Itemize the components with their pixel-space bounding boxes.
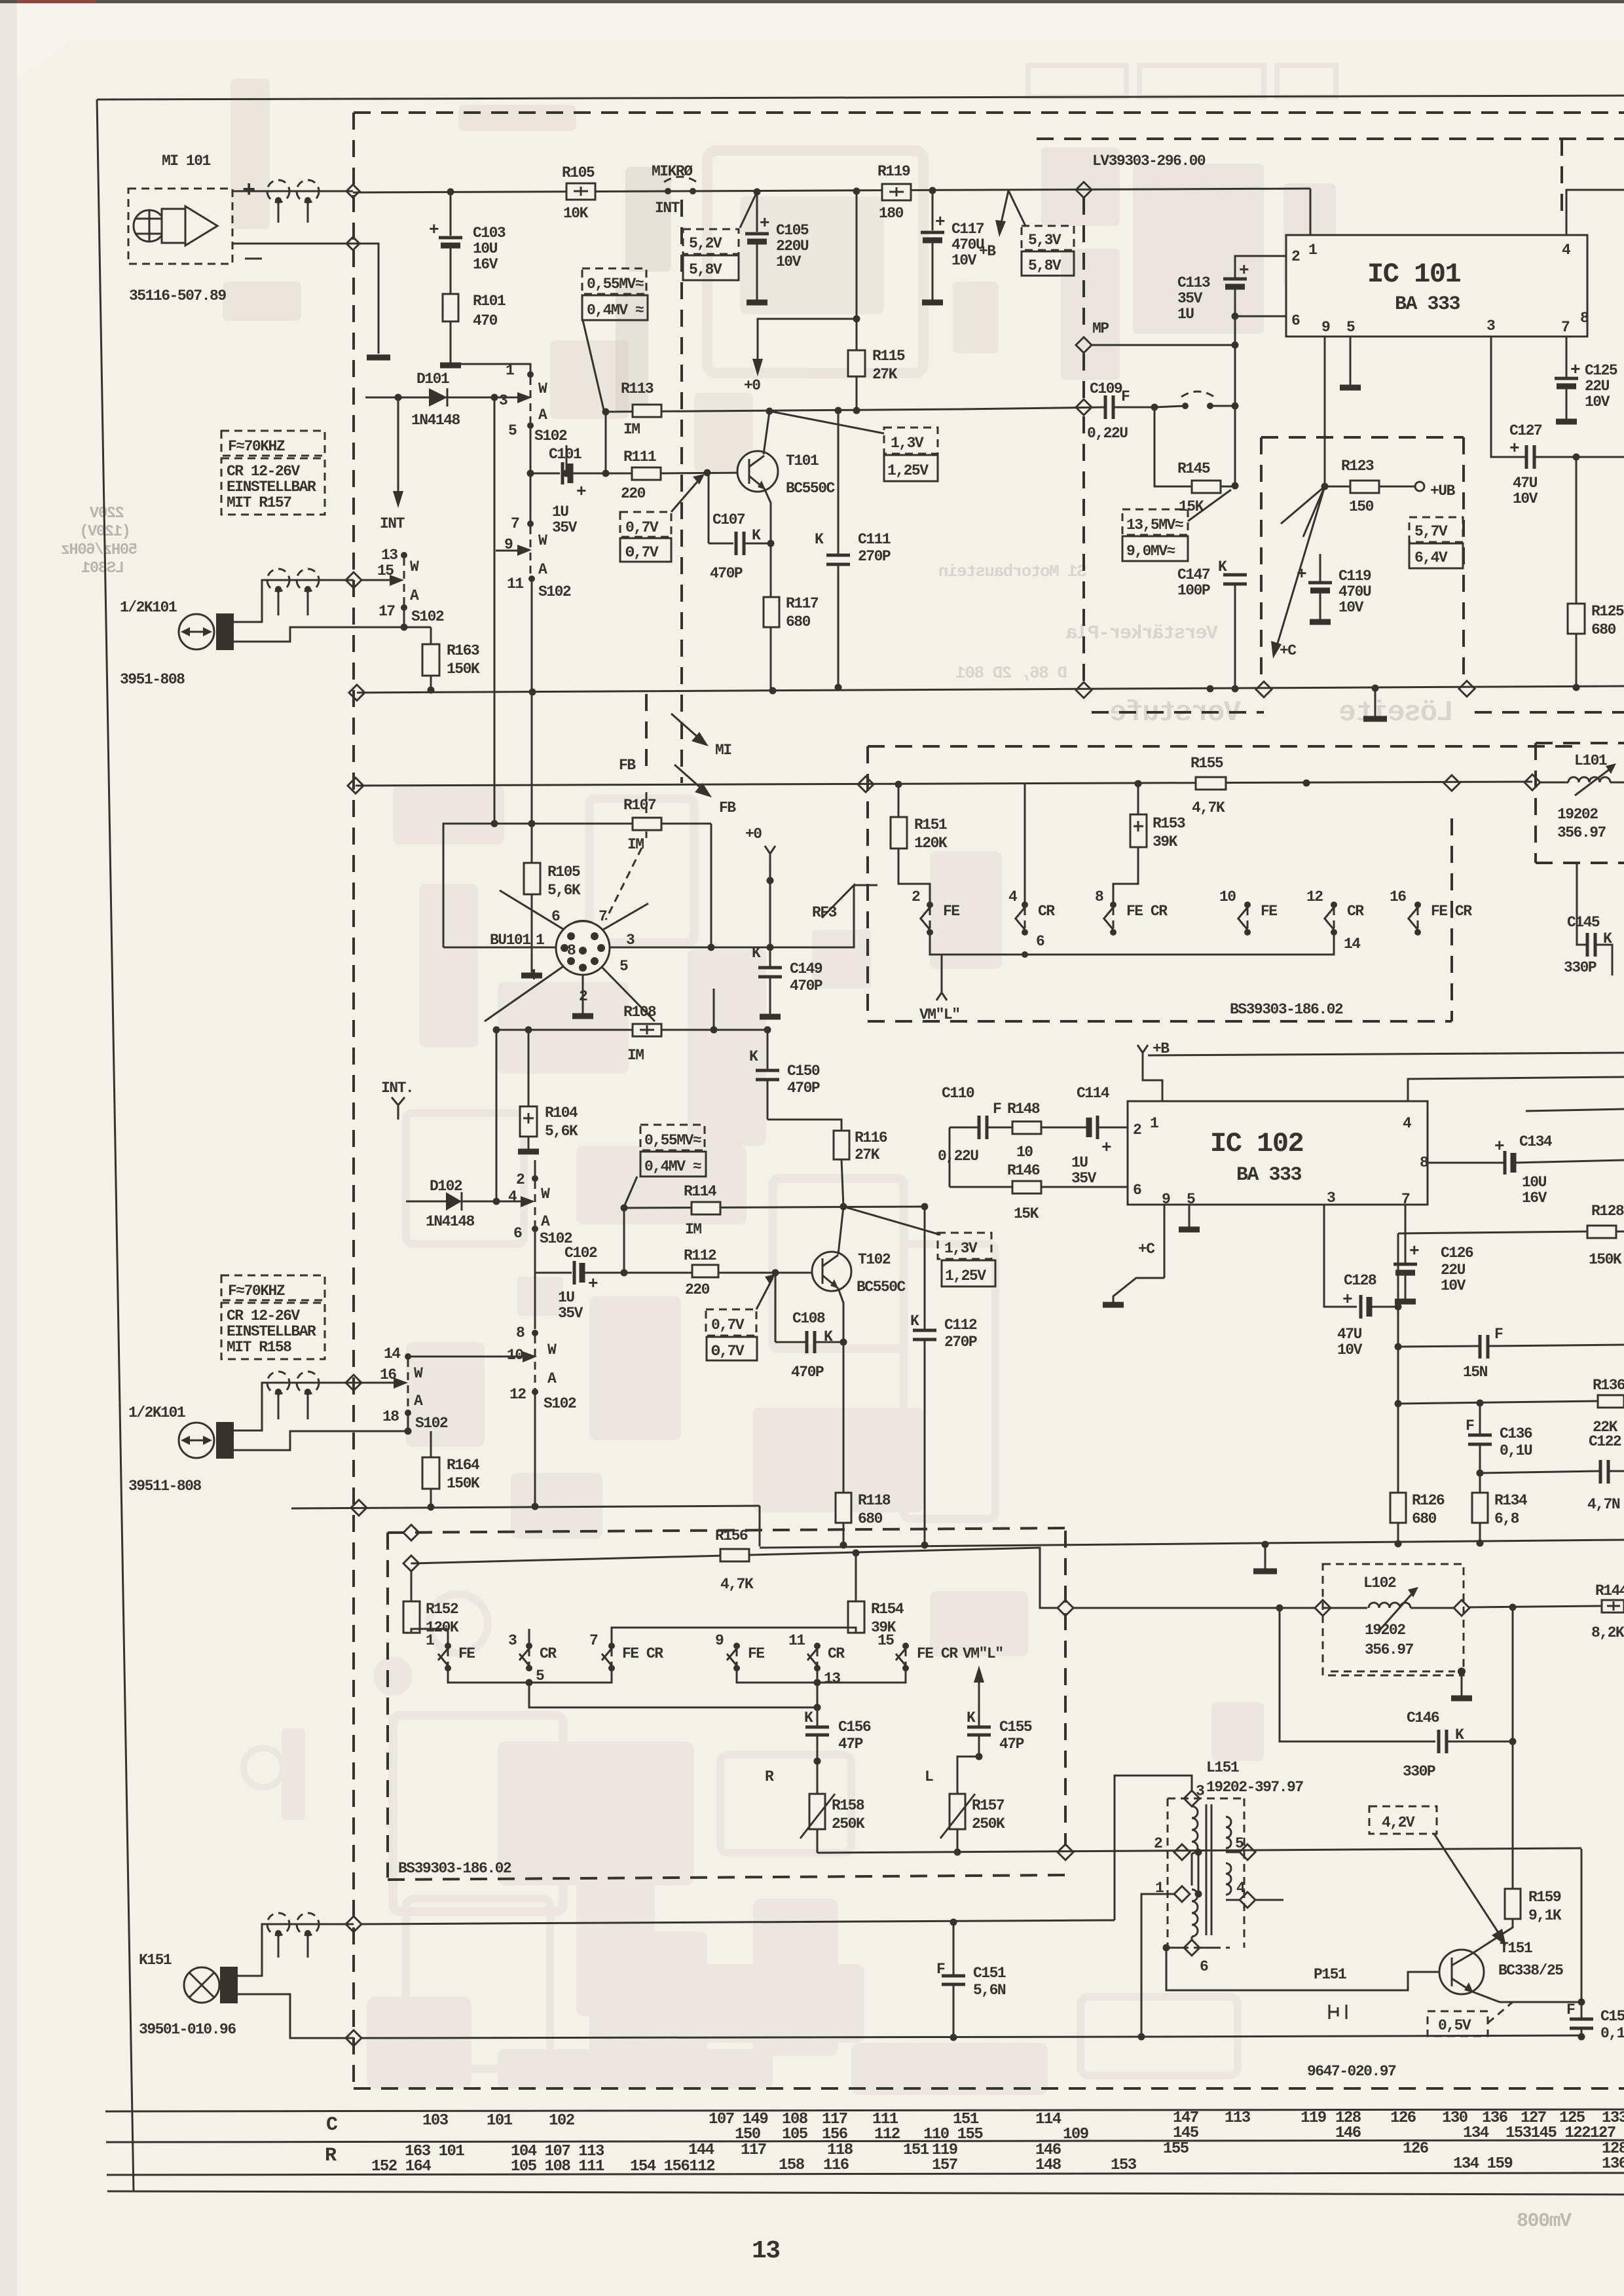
svg-text:S102: S102 <box>538 583 571 600</box>
svg-text:3951-808: 3951-808 <box>120 671 185 688</box>
svg-text:C107: C107 <box>712 511 745 528</box>
svg-text:LV39303-296.00: LV39303-296.00 <box>1092 153 1206 170</box>
shield symbol 8 <box>297 1913 319 1935</box>
resistor R115 column <box>856 191 858 411</box>
svg-text:+: + <box>935 212 945 232</box>
svg-text:22U: 22U <box>1441 1262 1466 1279</box>
svg-text:119: 119 <box>1301 2109 1326 2127</box>
svg-text:10V: 10V <box>951 252 977 269</box>
svg-text:16: 16 <box>1390 888 1406 905</box>
svg-text:157: 157 <box>932 2157 957 2174</box>
svg-text:16V: 16V <box>1522 1190 1547 1207</box>
svg-text:VM"L": VM"L" <box>963 1645 1003 1662</box>
svg-text:R114: R114 <box>684 1183 717 1200</box>
svg-text:19202: 19202 <box>1365 1622 1405 1639</box>
svg-text:470P: 470P <box>710 565 743 582</box>
voltage box 1,3V lower <box>938 1233 991 1259</box>
mic amp triangle <box>185 206 217 246</box>
wire C101 row <box>530 473 560 475</box>
svg-text:+0: +0 <box>744 377 760 394</box>
svg-text:1: 1 <box>1308 242 1317 259</box>
voltage box 5,8V <box>683 255 739 280</box>
connector diamond jack <box>346 572 361 588</box>
svg-text:470U: 470U <box>1338 583 1371 600</box>
svg-text:C125: C125 <box>1585 362 1617 379</box>
svg-text:W: W <box>538 532 547 549</box>
resistor R113 <box>633 405 661 417</box>
svg-text:R117: R117 <box>786 595 819 612</box>
pin2 drop <box>582 975 584 1013</box>
svg-text:W: W <box>547 1341 557 1358</box>
connector diamond C109 <box>1076 399 1092 415</box>
svg-text:INT: INT <box>380 515 405 532</box>
svg-text:R105: R105 <box>562 164 595 181</box>
svg-text:+C: +C <box>1280 642 1297 659</box>
svg-text:8: 8 <box>1095 888 1103 905</box>
collector wire T151 <box>1472 1919 1513 1954</box>
svg-text:4,2V: 4,2V <box>1382 1814 1415 1831</box>
resistor R155 <box>1196 777 1226 790</box>
svg-text:1,25V: 1,25V <box>887 462 929 479</box>
resistor R126 <box>1390 1493 1406 1523</box>
svg-text:S102: S102 <box>544 1395 576 1412</box>
svg-text:153: 153 <box>1111 2157 1137 2174</box>
wire R107 row <box>443 824 711 947</box>
note box F70KHZ upper <box>221 431 325 456</box>
pin5 ground <box>1189 1205 1190 1227</box>
resistor R151 <box>898 784 900 817</box>
svg-text:6: 6 <box>551 908 560 925</box>
measure box 0,55MV lower <box>640 1125 705 1150</box>
capacitor C153 <box>1581 1849 1583 2019</box>
svg-text:13: 13 <box>381 547 397 564</box>
resistor R105b 5,6K <box>531 824 533 863</box>
svg-text:27K: 27K <box>872 366 898 383</box>
svg-text:BS39303-186.02: BS39303-186.02 <box>398 1860 511 1877</box>
svg-text:2: 2 <box>1291 248 1300 265</box>
svg-text:146: 146 <box>1335 2124 1361 2142</box>
svg-text:K: K <box>815 531 824 548</box>
connector diamond K151a <box>346 1916 361 1932</box>
transistor T102 <box>812 1252 851 1291</box>
svg-text:MIKRØ: MIKRØ <box>652 163 693 180</box>
svg-text:IM: IM <box>685 1221 701 1238</box>
wire lamp row lower <box>361 2037 1141 2038</box>
svg-text:10V: 10V <box>1441 1277 1466 1294</box>
svg-text:F: F <box>1121 388 1130 405</box>
emitter wire T151 <box>1472 1992 1581 2002</box>
svg-text:R163: R163 <box>447 642 479 659</box>
capacitor C150 <box>767 1030 769 1069</box>
svg-text:R104: R104 <box>545 1104 578 1121</box>
capacitor C114 <box>1099 1127 1128 1129</box>
svg-text:3: 3 <box>1486 318 1495 335</box>
svg-text:4,7K: 4,7K <box>720 1576 754 1593</box>
shield symbol 3 <box>267 569 289 591</box>
svg-text:R148: R148 <box>1007 1101 1040 1118</box>
svg-text:0,55MV≈: 0,55MV≈ <box>587 276 644 293</box>
capacitor C102 <box>535 1272 572 1274</box>
dashed box R123 section <box>1261 436 1464 439</box>
svg-text:1,3V: 1,3V <box>891 435 924 452</box>
svg-text:35V: 35V <box>1071 1170 1097 1187</box>
svg-text:14: 14 <box>1344 936 1361 953</box>
svg-text:0,7V: 0,7V <box>625 519 659 536</box>
svg-text:A: A <box>541 1213 550 1230</box>
svg-text:A: A <box>538 407 547 424</box>
svg-text:R: R <box>765 1768 774 1785</box>
ghost text 220V left <box>62 505 138 577</box>
jack wires <box>234 580 354 622</box>
VM rail lower <box>817 1848 1581 1853</box>
measure box 13,5MV <box>1122 509 1188 535</box>
svg-text:CR: CR <box>828 1645 845 1662</box>
svg-text:K: K <box>749 1048 758 1065</box>
svg-text:R115: R115 <box>872 348 905 365</box>
svg-text:R101: R101 <box>473 293 506 310</box>
feed column <box>949 1127 951 1187</box>
svg-text:+B: +B <box>979 243 996 260</box>
svg-text:220: 220 <box>685 1281 710 1298</box>
svg-text:K: K <box>1218 558 1227 575</box>
svg-text:2: 2 <box>516 1171 525 1188</box>
svg-text:144: 144 <box>688 2141 714 2159</box>
svg-text:1: 1 <box>426 1632 434 1649</box>
resistor R112 <box>692 1265 718 1277</box>
resistor R107 <box>633 818 661 830</box>
svg-text:1/2K101: 1/2K101 <box>128 1404 185 1421</box>
svg-text:8: 8 <box>567 942 576 959</box>
svg-text:470: 470 <box>473 312 498 329</box>
svg-text:5,3V: 5,3V <box>1028 232 1061 249</box>
svg-text:S102: S102 <box>411 608 444 625</box>
svg-text:R126: R126 <box>1412 1492 1445 1509</box>
svg-text:11: 11 <box>507 575 523 592</box>
capacitor C122 <box>1477 1470 1484 1477</box>
transistor T151 BC338/25 <box>1439 1950 1484 1994</box>
index table line 3 <box>107 2173 1624 2175</box>
svg-text:4: 4 <box>1008 888 1018 905</box>
svg-text:MI: MI <box>715 742 731 759</box>
monitor feed wire lower <box>411 1548 1058 1608</box>
L151 dashed box <box>1168 1798 1244 1800</box>
svg-text:102: 102 <box>549 2112 574 2130</box>
svg-text:FE: FE <box>1261 903 1277 920</box>
svg-text:5,8V: 5,8V <box>689 261 722 278</box>
svg-text:EINSTELLBAR: EINSTELLBAR <box>227 1323 316 1340</box>
pointer line from box <box>583 320 604 410</box>
svg-text:10V: 10V <box>1338 599 1364 616</box>
capacitor C146 feedback loop <box>1276 1605 1283 1612</box>
resistor R105 <box>566 183 595 200</box>
svg-text:16V: 16V <box>473 256 498 273</box>
junction dot <box>395 394 402 401</box>
svg-text:T151: T151 <box>1500 1940 1532 1957</box>
svg-text:D101: D101 <box>416 371 449 388</box>
svg-text:+: + <box>760 213 769 233</box>
svg-text:R155: R155 <box>1190 755 1223 772</box>
svg-text:0,55MV≈: 0,55MV≈ <box>644 1132 701 1149</box>
shield symbol 7 <box>267 1913 289 1935</box>
minus sign <box>245 258 262 260</box>
svg-text:5,6K: 5,6K <box>547 882 581 899</box>
voltage box 0,7V lower <box>706 1309 756 1336</box>
svg-text:1N4148: 1N4148 <box>426 1213 475 1230</box>
svg-text:5,2V: 5,2V <box>689 235 722 252</box>
long inner dashed line <box>680 200 683 783</box>
pin1 wire <box>1310 189 1312 235</box>
svg-text:MIT R158: MIT R158 <box>227 1339 291 1356</box>
svg-text:+: + <box>588 1274 598 1294</box>
voltage box 1,25V lower <box>942 1260 995 1286</box>
svg-text:D 86, 2D 801: D 86, 2D 801 <box>956 663 1067 683</box>
wire R114 row <box>624 1207 925 1208</box>
pin4 wire <box>1566 190 1624 235</box>
svg-text:155: 155 <box>1163 2140 1189 2158</box>
svg-text:FB: FB <box>719 799 736 816</box>
svg-text:6: 6 <box>1291 312 1300 329</box>
capacitor C108 <box>775 1273 777 1342</box>
svg-text:10V: 10V <box>1337 1341 1363 1358</box>
wire R113 row <box>606 409 961 412</box>
svg-text:120K: 120K <box>914 835 948 852</box>
svg-text:CR: CR <box>1347 903 1364 920</box>
monitor dashed box lower <box>388 1528 1067 1533</box>
pin9 wire <box>1324 337 1326 486</box>
svg-text:Θ,7V: Θ,7V <box>711 1343 745 1360</box>
svg-text:C102: C102 <box>564 1245 597 1262</box>
svg-text:1: 1 <box>1150 1115 1158 1132</box>
ground below bus <box>1375 688 1376 717</box>
svg-text:5: 5 <box>508 422 517 439</box>
svg-text:C155: C155 <box>999 1719 1032 1736</box>
svg-text:FE: FE <box>943 903 959 920</box>
resistor R104 <box>528 1030 530 1106</box>
shield symbol 1 <box>267 180 289 202</box>
vertical to R107 row <box>494 397 496 824</box>
svg-text:T101: T101 <box>786 452 819 469</box>
voltage box 1,3V <box>884 428 938 454</box>
wire mic to bus <box>232 191 353 192</box>
resistor R159 <box>1512 1607 1514 1889</box>
connector diamond left <box>348 778 363 793</box>
MP wire <box>1092 344 1235 346</box>
svg-text:13,5MV≈: 13,5MV≈ <box>1126 517 1183 534</box>
svg-text:180: 180 <box>879 205 904 222</box>
connector diamond <box>349 685 365 701</box>
svg-text:R145: R145 <box>1177 460 1210 477</box>
resistor R146 <box>950 1186 1012 1188</box>
svg-text:R112: R112 <box>684 1247 716 1264</box>
svg-text:C126: C126 <box>1441 1245 1473 1262</box>
svg-text:A: A <box>538 561 547 578</box>
svg-text:9,1K: 9,1K <box>1528 1907 1562 1924</box>
shield symbol 6 <box>297 1372 319 1394</box>
svg-text:EINSTELLBAR: EINSTELLBAR <box>227 479 316 496</box>
svg-text:F≈70KHZ: F≈70KHZ <box>228 1283 285 1300</box>
svg-text:4: 4 <box>528 967 537 984</box>
ground C105 <box>747 300 767 306</box>
secondary winding <box>1226 1817 1231 1848</box>
resistor R144 <box>1602 1600 1624 1613</box>
capacitor C110 <box>978 1116 981 1139</box>
svg-text:R159: R159 <box>1528 1889 1561 1906</box>
capacitor C101 <box>561 462 564 484</box>
monitor dashed box upper <box>868 745 1578 748</box>
svg-text:47U: 47U <box>1513 475 1538 492</box>
shield symbol 4 <box>297 569 319 591</box>
svg-text:R128: R128 <box>1591 1203 1624 1220</box>
svg-text:150K: 150K <box>447 661 480 678</box>
svg-text:R151: R151 <box>914 816 947 833</box>
measure box 0,4MV <box>582 295 648 320</box>
svg-text:C156: C156 <box>838 1719 871 1736</box>
svg-text:CR 12-26V: CR 12-26V <box>227 463 300 480</box>
pointer 4,2V <box>1434 1834 1501 1937</box>
voltage box 4,2V <box>1369 1806 1437 1834</box>
vertical D102 to R108 row <box>496 1030 498 1201</box>
capacitor C136 <box>1479 1403 1481 1435</box>
svg-text:BA 333: BA 333 <box>1236 1164 1302 1186</box>
svg-text:C101: C101 <box>549 446 581 463</box>
svg-text:1: 1 <box>536 932 544 949</box>
outer dashed box left <box>352 113 355 2088</box>
resistor R117 <box>770 543 772 689</box>
pin9 wire +C <box>1164 1205 1166 1278</box>
svg-text:C146: C146 <box>1407 1709 1439 1726</box>
svg-text:BC550C: BC550C <box>857 1279 906 1296</box>
L101 dashed box <box>1536 742 1624 744</box>
resistor R164 <box>430 1431 432 1507</box>
junction dots top bus <box>447 189 454 196</box>
svg-text:150K: 150K <box>447 1475 480 1492</box>
connector diamond <box>346 185 360 198</box>
measure box 0,55MV <box>582 268 646 294</box>
svg-text:126: 126 <box>1390 2109 1416 2127</box>
node arrow to 5,2V <box>740 192 757 228</box>
ground C117 <box>922 300 943 306</box>
svg-text:11: 11 <box>788 1632 805 1649</box>
svg-text:9: 9 <box>715 1632 724 1649</box>
svg-text:+: + <box>576 482 586 501</box>
svg-text:6: 6 <box>1133 1182 1141 1199</box>
svg-text:FE CR: FE CR <box>1126 903 1168 920</box>
svg-text:112: 112 <box>874 2126 900 2143</box>
svg-text:270P: 270P <box>858 548 891 565</box>
svg-text:152 164: 152 164 <box>371 2158 431 2176</box>
index table line 2 <box>106 2140 1624 2142</box>
resistor R153 <box>1137 784 1139 814</box>
switch contact on C109 row <box>1182 403 1189 409</box>
inner dashed line right channel <box>1037 137 1624 140</box>
capacitor C107 <box>708 473 710 543</box>
svg-text:13: 13 <box>752 2237 780 2265</box>
svg-text:C117: C117 <box>951 221 984 238</box>
wire mic minus <box>232 244 378 354</box>
svg-text:R108: R108 <box>623 1004 656 1021</box>
svg-text:6,4V: 6,4V <box>1414 549 1448 566</box>
svg-text:3: 3 <box>499 392 507 409</box>
svg-text:50Hz/60Hz: 50Hz/60Hz <box>62 541 138 559</box>
ghost text Vorstufe <box>938 562 1454 729</box>
svg-text:0,5V: 0,5V <box>1438 2017 1471 2034</box>
capacitor C111 <box>838 410 840 554</box>
svg-text:150K: 150K <box>1589 1251 1622 1268</box>
resistor R101 <box>443 294 458 321</box>
svg-text:Verstärker-Pla: Verstärker-Pla <box>1065 623 1218 645</box>
capacitor C126 <box>1405 1205 1407 1264</box>
dashed stub FB <box>645 694 648 776</box>
ghost pcb top centre <box>616 167 671 412</box>
shield symbol 5 <box>267 1372 289 1394</box>
svg-text:7: 7 <box>589 1632 598 1649</box>
svg-text:154 156112: 154 156112 <box>630 2158 714 2176</box>
svg-text:150: 150 <box>735 2126 761 2143</box>
resistor R163 <box>430 627 432 690</box>
svg-text:47P: 47P <box>838 1736 863 1753</box>
svg-text:BC550C: BC550C <box>786 480 836 497</box>
svg-text:6: 6 <box>513 1225 522 1242</box>
svg-text:5,7V: 5,7V <box>1414 523 1448 540</box>
svg-text:12: 12 <box>509 1386 526 1403</box>
svg-text:4: 4 <box>1562 242 1571 259</box>
svg-text:CR: CR <box>540 1645 557 1662</box>
voltage box 5,3V <box>1022 226 1074 250</box>
svg-text:6,8: 6,8 <box>1494 1510 1519 1527</box>
svg-text:VM"L": VM"L" <box>919 1006 960 1023</box>
svg-text:39511-808: 39511-808 <box>128 1478 201 1495</box>
lower bus wire <box>357 686 1624 693</box>
svg-text:10: 10 <box>507 1347 523 1364</box>
emitter column T102 <box>838 1288 843 1545</box>
svg-text:1,25V: 1,25V <box>945 1267 986 1285</box>
svg-text:22U: 22U <box>1585 378 1610 395</box>
connector diamond bus <box>1076 182 1092 198</box>
svg-text:10: 10 <box>1016 1144 1033 1161</box>
svg-text:136: 136 <box>1602 2155 1624 2173</box>
collector link T102 <box>838 1207 843 1254</box>
svg-text:C122: C122 <box>1589 1433 1621 1450</box>
svg-text:C103: C103 <box>473 225 506 242</box>
svg-text:4: 4 <box>508 1188 517 1205</box>
svg-text:C108: C108 <box>792 1310 825 1327</box>
primary winding <box>1192 1806 1198 1853</box>
svg-text:IM: IM <box>627 1047 644 1064</box>
measure box 9,0MV <box>1122 536 1188 561</box>
svg-text:Löseite: Löseite <box>1340 697 1454 729</box>
svg-text:R107: R107 <box>623 797 656 814</box>
svg-text:K: K <box>910 1313 919 1330</box>
svg-text:C134: C134 <box>1519 1133 1553 1150</box>
svg-text:101: 101 <box>487 2112 513 2130</box>
connector diamond L101 <box>1524 774 1540 790</box>
svg-text:156: 156 <box>822 2126 848 2143</box>
emitter wire <box>764 488 771 543</box>
capacitor C112 <box>924 1207 926 1330</box>
svg-text:MI 101: MI 101 <box>162 153 211 170</box>
svg-text:39501-010.96: 39501-010.96 <box>139 2021 236 2038</box>
svg-text:K151: K151 <box>139 1952 172 1969</box>
svg-text:INT.: INT. <box>381 1080 413 1097</box>
capacitor C117 electrolytic <box>932 191 934 230</box>
scanner top strip <box>0 0 1624 3</box>
svg-text:+: + <box>1101 1138 1111 1157</box>
svg-text:680: 680 <box>1591 621 1616 638</box>
svg-text:K: K <box>752 527 761 544</box>
diode D102 1N4148 <box>406 1201 532 1203</box>
voltage box 1,25V <box>884 455 938 481</box>
svg-text:10: 10 <box>1219 888 1236 905</box>
